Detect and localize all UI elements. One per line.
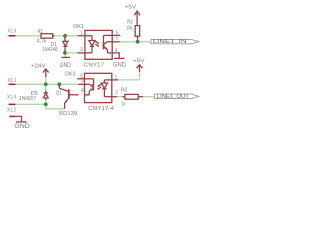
svg-text:+5V: +5V bbox=[125, 4, 137, 10]
svg-text:2: 2 bbox=[115, 90, 118, 96]
svg-text:X1.3: X1.3 bbox=[8, 29, 17, 35]
svg-text:R3: R3 bbox=[121, 88, 127, 94]
svg-text:GND: GND bbox=[14, 123, 30, 129]
svg-text:X1.4: X1.4 bbox=[7, 95, 17, 101]
svg-text:CNY17: CNY17 bbox=[84, 62, 104, 68]
svg-text:2: 2 bbox=[80, 47, 83, 53]
svg-text:GND: GND bbox=[60, 62, 71, 69]
svg-text:1k: 1k bbox=[121, 101, 125, 107]
svg-text:GND: GND bbox=[113, 61, 127, 68]
svg-text:R2: R2 bbox=[127, 19, 133, 25]
svg-text:LINE1_OUT: LINE1_OUT bbox=[157, 94, 190, 100]
svg-text:4: 4 bbox=[81, 88, 84, 94]
svg-text:1: 1 bbox=[80, 31, 83, 37]
svg-text:1: 1 bbox=[115, 75, 118, 81]
svg-text:R1: R1 bbox=[38, 29, 44, 35]
svg-text:X1.1: X1.1 bbox=[8, 78, 17, 84]
svg-text:CNY17-4: CNY17-4 bbox=[88, 106, 115, 112]
svg-text:LINE1_IN: LINE1_IN bbox=[153, 39, 187, 45]
svg-text:X1.2: X1.2 bbox=[7, 108, 16, 114]
svg-text:1N4007: 1N4007 bbox=[19, 96, 36, 102]
svg-text:5: 5 bbox=[116, 35, 119, 41]
svg-text:BD139: BD139 bbox=[59, 111, 77, 117]
svg-text:+5V: +5V bbox=[133, 58, 145, 64]
svg-text:1N4148: 1N4148 bbox=[42, 47, 58, 53]
svg-text:OK3: OK3 bbox=[65, 72, 76, 78]
svg-text:5: 5 bbox=[81, 78, 84, 84]
svg-text:4,7k: 4,7k bbox=[37, 39, 47, 45]
svg-text:Q1: Q1 bbox=[56, 91, 62, 97]
svg-text:10k: 10k bbox=[126, 26, 133, 32]
svg-text:OK1: OK1 bbox=[73, 24, 84, 30]
svg-text:+24V: +24V bbox=[31, 64, 46, 70]
svg-text:4: 4 bbox=[115, 48, 118, 54]
